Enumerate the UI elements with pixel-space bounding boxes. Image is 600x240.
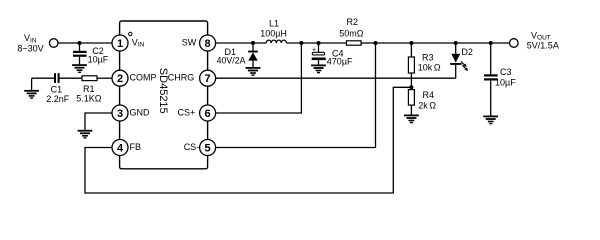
wire CS+ sense to pin 6	[216, 43, 302, 113]
svg-text:C3: C3	[500, 67, 512, 77]
wire C1 to R1	[60, 77, 82, 79]
ground below C4	[311, 65, 326, 74]
capacitor C1	[54, 73, 60, 83]
wire CS- sense to pin 5	[216, 43, 376, 148]
svg-text:2.2nF: 2.2nF	[46, 94, 70, 104]
svg-text:10µF: 10µF	[495, 77, 516, 87]
wire FB net from pin 4 around bottom to divider	[85, 87, 411, 193]
node CS- tap junction	[374, 41, 378, 45]
node C4 tap junction	[317, 41, 321, 45]
svg-text:R3: R3	[422, 53, 434, 63]
svg-text:2: 2	[117, 73, 123, 85]
ground below C3	[483, 116, 498, 125]
svg-text:10kΩ: 10kΩ	[418, 63, 441, 73]
ground at COMP network	[24, 78, 39, 99]
svg-text:2kΩ: 2kΩ	[418, 101, 436, 111]
wire R2 to VOUT terminal	[361, 42, 509, 44]
resistor R2	[347, 41, 362, 45]
ground below C2	[72, 64, 87, 73]
node CS+ tap junction	[299, 41, 303, 45]
terminal VIN	[49, 39, 58, 48]
node VIN/C2 junction	[78, 41, 82, 45]
svg-text:R1: R1	[83, 84, 95, 94]
node FB divider junction	[409, 85, 413, 89]
svg-text:40V/2A: 40V/2A	[217, 56, 246, 66]
svg-text:5V/1.5A: 5V/1.5A	[527, 40, 559, 50]
svg-text:FB: FB	[130, 142, 142, 152]
svg-text:10µF: 10µF	[88, 55, 109, 65]
svg-text:1: 1	[117, 38, 123, 50]
svg-text:R2: R2	[347, 17, 359, 27]
svg-text:CS+: CS+	[178, 107, 196, 117]
resistor R4	[408, 87, 414, 114]
pin 4	[112, 140, 128, 156]
pin 5	[200, 140, 216, 156]
svg-text:CHRG: CHRG	[168, 73, 195, 83]
ground below D1	[246, 67, 261, 76]
ground below R4	[404, 115, 419, 124]
svg-text:8: 8	[205, 38, 211, 50]
wire ground to C1	[32, 77, 55, 79]
node C3 tap junction	[489, 41, 493, 45]
pin 6	[200, 105, 216, 121]
svg-text:470µF: 470µF	[327, 56, 353, 66]
svg-text:5.1KΩ: 5.1KΩ	[76, 93, 102, 103]
svg-text:7: 7	[205, 73, 211, 85]
svg-text:GND: GND	[130, 107, 151, 117]
svg-text:6: 6	[205, 108, 211, 120]
resistor R3	[408, 43, 414, 87]
svg-text:3: 3	[117, 108, 123, 120]
diode D1	[248, 43, 258, 67]
capacitor C4	[312, 43, 326, 65]
IC U1 SD45215 body	[120, 21, 208, 169]
svg-text:50mΩ: 50mΩ	[339, 28, 364, 38]
node SW/D1 junction	[251, 41, 255, 45]
svg-text:COMP: COMP	[130, 73, 157, 83]
terminal VOUT	[510, 39, 519, 48]
wire L1 to R2	[286, 42, 346, 44]
wire SW pin 8 to L1	[216, 42, 267, 44]
pin 3	[112, 105, 128, 121]
svg-text:CS-: CS-	[184, 142, 200, 152]
resistor R1	[82, 76, 97, 81]
svg-text:5: 5	[205, 143, 211, 155]
svg-text:SW: SW	[182, 37, 197, 47]
svg-text:SD45215: SD45215	[157, 68, 169, 114]
pin 8	[200, 35, 216, 51]
pin 1 indicator dot	[129, 32, 132, 35]
LED D2	[450, 43, 469, 78]
svg-text:L1: L1	[269, 18, 279, 28]
wire CHRG pin 7 to D2 cathode	[216, 77, 456, 79]
capacitor C3	[484, 43, 498, 116]
svg-text:R4: R4	[423, 90, 435, 100]
inductor L1	[266, 40, 286, 43]
pin 2	[112, 70, 128, 86]
svg-text:8~30V: 8~30V	[17, 44, 43, 54]
ground at pin 3	[78, 130, 93, 139]
capacitor C2	[73, 43, 87, 64]
node D2 tap junction	[454, 41, 458, 45]
svg-text:100µH: 100µH	[260, 29, 287, 39]
node R3 tap junction	[409, 41, 413, 45]
svg-text:D2: D2	[461, 47, 473, 57]
wire pin 3 GND to ground	[85, 113, 112, 130]
svg-text:C1: C1	[51, 84, 63, 94]
svg-text:4: 4	[117, 143, 124, 155]
pin 1	[112, 35, 128, 51]
wire VIN terminal to pin 1	[58, 42, 112, 44]
wire R1 to pin 2	[97, 77, 112, 79]
pin 7	[200, 70, 216, 86]
